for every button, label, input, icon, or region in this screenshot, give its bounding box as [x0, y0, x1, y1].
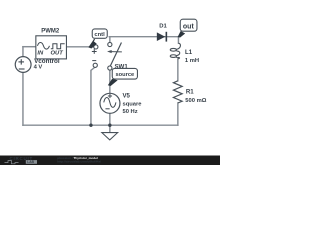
- svg-text:OUT: OUT: [51, 50, 64, 56]
- svg-text:http://circuitlab.com/c6fu6f4x: http://circuitlab.com/c6fu6f4x/: [57, 160, 101, 164]
- svg-text:V5: V5: [123, 92, 131, 99]
- svg-text:4 V: 4 V: [34, 65, 43, 71]
- svg-text:50 Hz: 50 Hz: [123, 109, 138, 115]
- svg-text:1 mH: 1 mH: [185, 58, 199, 64]
- svg-text:square: square: [123, 102, 143, 108]
- svg-text:R1: R1: [186, 89, 194, 96]
- svg-text:IN: IN: [37, 50, 44, 56]
- svg-text:source: source: [116, 72, 135, 78]
- svg-text:LAB: LAB: [27, 160, 34, 164]
- svg-text:PWM2: PWM2: [41, 28, 60, 34]
- svg-text:500 mΩ: 500 mΩ: [185, 98, 206, 104]
- svg-text:out: out: [183, 23, 195, 30]
- svg-text:cntl: cntl: [94, 32, 105, 38]
- svg-text:L1: L1: [185, 49, 193, 56]
- svg-text:D1: D1: [159, 23, 167, 29]
